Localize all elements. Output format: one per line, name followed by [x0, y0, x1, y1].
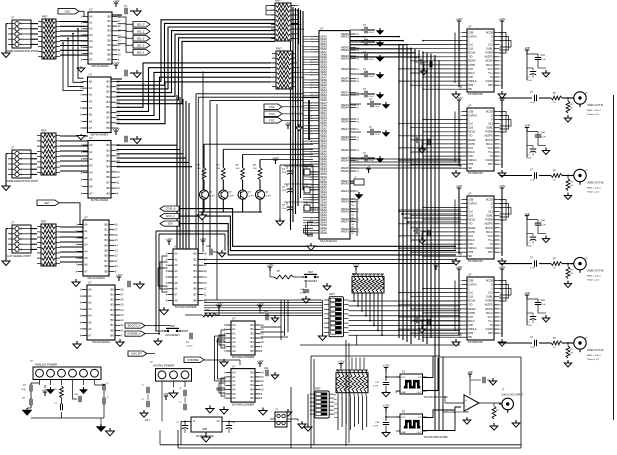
svg-text:VID_1: VID_1: [137, 30, 145, 34]
svg-text:CGND: CGND: [485, 328, 493, 331]
svg-text:A0: A0: [89, 143, 93, 147]
svg-text:ALM RESET: ALM RESET: [165, 333, 180, 337]
svg-text:SE?: SE?: [44, 201, 50, 205]
svg-text:FNT: FNT: [468, 68, 473, 71]
svg-text:FNC: FNC: [468, 155, 473, 158]
svg-text:CLIP?: CLIP?: [248, 196, 255, 198]
svg-text:1?uF: 1?uF: [530, 268, 535, 270]
svg-text:76ohm = Q.2: 76ohm = Q.2: [587, 359, 600, 361]
svg-text:OUT: OUT: [417, 392, 422, 394]
svg-text:BCLC: BCLC: [486, 312, 493, 315]
svg-text:BCLK: BCLK: [468, 151, 475, 154]
svg-text:A7: A7: [88, 333, 92, 337]
svg-text:AUX SERIAL PORT: AUX SERIAL PORT: [7, 254, 31, 258]
svg-text:A0: A0: [232, 323, 236, 327]
svg-text:SN74LV4040A: SN74LV4040A: [87, 276, 105, 280]
svg-text:TA: TA: [490, 155, 493, 158]
svg-text:SDNLA: SDNLA: [468, 80, 477, 83]
svg-text:B7: B7: [108, 48, 112, 52]
svg-text:1?uF: 1?uF: [530, 347, 535, 349]
svg-text:SW?: SW?: [329, 292, 335, 296]
svg-text:U?: U?: [89, 73, 93, 77]
svg-text:C41: C41: [264, 311, 269, 313]
svg-text:NC: NC: [352, 221, 356, 223]
svg-text:A4: A4: [89, 171, 93, 175]
svg-text:−: −: [465, 404, 467, 408]
svg-text:76ohm = Q.2: 76ohm = Q.2: [587, 114, 600, 116]
svg-text:SN74LV4040A: SN74LV4040A: [91, 64, 109, 68]
svg-text:STROBE: STROBE: [187, 358, 198, 362]
svg-text:B1: B1: [194, 257, 198, 261]
svg-text:FNTB: FNTB: [468, 143, 475, 146]
svg-text:FNC: FNC: [468, 324, 473, 327]
svg-text:U?: U?: [174, 245, 178, 249]
svg-text:B0: B0: [194, 251, 198, 255]
svg-text:B4: B4: [111, 308, 115, 312]
svg-text:FSC: FSC: [269, 119, 274, 123]
svg-text:A7: A7: [84, 269, 88, 273]
svg-text:ALEPO: ALEPO: [484, 223, 492, 226]
svg-text:B1: B1: [108, 19, 112, 23]
svg-text:GND: GND: [401, 432, 406, 434]
svg-text:CLB: CLB: [468, 48, 473, 51]
svg-text:B9: B9: [105, 269, 109, 273]
svg-text:9: 9: [20, 249, 22, 252]
svg-text:U?: U?: [468, 273, 472, 277]
svg-text:A2: A2: [89, 157, 93, 161]
svg-text:FNT: FNT: [468, 147, 473, 150]
svg-text:EXI: EXI: [168, 222, 173, 226]
svg-text:A1: A1: [89, 86, 93, 90]
svg-text:CLB: CLB: [468, 127, 473, 130]
svg-text:A0: A0: [84, 222, 88, 226]
svg-text:U?: U?: [89, 8, 93, 12]
svg-text:BCLK: BCLK: [468, 72, 475, 75]
svg-text:0.1uF: 0.1uF: [373, 386, 379, 388]
svg-text:B0: B0: [107, 79, 111, 83]
svg-text:SDNLA: SDNLA: [468, 159, 477, 162]
svg-text:B2: B2: [111, 298, 115, 302]
svg-text:FNTB: FNTB: [468, 64, 475, 67]
svg-text:FSC: FSC: [269, 112, 274, 116]
svg-text:FBT: FBT: [488, 251, 493, 254]
svg-text:A5: A5: [89, 113, 93, 117]
svg-text:3BH2 = 12V+2: 3BH2 = 12V+2: [587, 188, 601, 190]
svg-text:B5: B5: [111, 313, 115, 317]
svg-text:NB: NB: [468, 336, 472, 339]
svg-text:76ohm = Q.2: 76ohm = Q.2: [587, 192, 600, 194]
svg-text:COPYC: COPYC: [468, 35, 477, 38]
svg-text:33uF: 33uF: [282, 190, 287, 192]
svg-text:9: 9: [20, 44, 22, 47]
svg-text:BCLK: BCLK: [468, 320, 475, 323]
svg-text:DIGITAL POWER: DIGITAL POWER: [153, 364, 174, 368]
svg-text:PORM: PORM: [485, 300, 493, 303]
svg-text:10K: 10K: [197, 168, 201, 170]
svg-text:10M CLOCK INPUT: 10M CLOCK INPUT: [501, 394, 523, 397]
svg-text:U?: U?: [84, 216, 88, 220]
svg-text:NB: NB: [468, 167, 472, 170]
svg-text:3BH2 = 12V+2: 3BH2 = 12V+2: [587, 355, 601, 357]
svg-text:OL3: OL3: [488, 123, 493, 126]
svg-text:OSC: OSC: [65, 10, 71, 14]
svg-text:SUBL: SUBL: [486, 296, 493, 299]
svg-text:RN?: RN?: [276, 47, 282, 51]
svg-text:NB: NB: [468, 88, 472, 91]
svg-text:3: 3: [20, 28, 22, 31]
svg-text:A4: A4: [84, 249, 88, 253]
svg-text:3BH2 = 12V+2: 3BH2 = 12V+2: [587, 276, 601, 278]
svg-text:0.1uF: 0.1uF: [541, 304, 547, 306]
svg-text:BCHO: BCHO: [486, 60, 493, 63]
svg-text:33uF: 33uF: [282, 172, 287, 174]
svg-text:B5: B5: [107, 105, 111, 109]
svg-text:10uF: 10uF: [527, 246, 532, 248]
svg-text:BGND: BGND: [468, 60, 475, 63]
svg-text:NCLB: NCLB: [468, 52, 475, 55]
svg-text:A6: A6: [89, 119, 93, 123]
svg-text:D/L?: D/L?: [145, 419, 151, 422]
svg-text:RN?: RN?: [42, 15, 48, 19]
svg-text:VCC: VCC: [401, 377, 406, 379]
svg-text:B8: B8: [107, 186, 111, 190]
svg-text:B7: B7: [111, 323, 115, 327]
svg-text:SUBL: SUBL: [486, 127, 493, 130]
svg-text:NC: NC: [352, 224, 356, 226]
svg-text:BCHO: BCHO: [486, 227, 493, 230]
svg-text:B7: B7: [107, 116, 111, 120]
svg-text:NC: NC: [352, 233, 356, 235]
svg-text:B2: B2: [251, 379, 255, 383]
svg-text:B3: B3: [107, 159, 111, 163]
svg-text:AMPLIFIER/CRYSTDBY: AMPLIFIER/CRYSTDBY: [443, 411, 470, 414]
svg-text:OL3: OL3: [488, 44, 493, 47]
svg-text:A4: A4: [232, 388, 236, 392]
svg-text:LTVR_A: LTVR_A: [166, 207, 176, 211]
svg-text:J?: J?: [11, 146, 14, 150]
svg-text:VREF6: VREF6: [341, 68, 350, 71]
svg-text:ALEPO: ALEPO: [484, 56, 492, 59]
svg-text:TA: TA: [490, 324, 493, 327]
svg-text:CLIP?: CLIP?: [228, 196, 235, 198]
svg-text:B6: B6: [105, 254, 109, 258]
svg-text:YIO: YIO: [468, 56, 472, 59]
svg-text:10uF: 10uF: [527, 80, 532, 82]
svg-text:B5: B5: [251, 392, 255, 396]
svg-text:ALEPO: ALEPO: [484, 304, 492, 307]
svg-text:NC: NC: [352, 211, 356, 213]
svg-text:B1: B1: [111, 293, 115, 297]
svg-text:CGND: CGND: [485, 247, 493, 250]
svg-text:10K: 10K: [216, 168, 220, 170]
svg-text:76ohm = Q.2: 76ohm = Q.2: [587, 280, 600, 282]
svg-text:BOOST_A: BOOST_A: [128, 324, 141, 328]
svg-text:BCHO: BCHO: [486, 139, 493, 142]
svg-text:FNTB: FNTB: [468, 231, 475, 234]
svg-text:B9: B9: [111, 333, 115, 337]
svg-text:NCLB: NCLB: [468, 131, 475, 134]
svg-text:DEBUG/MONITOR PORT: DEBUG/MONITOR PORT: [7, 179, 38, 183]
svg-text:B4: B4: [194, 275, 198, 279]
svg-text:7: 7: [20, 38, 22, 41]
svg-text:0.1uF: 0.1uF: [541, 225, 547, 227]
svg-text:NC: NC: [352, 218, 356, 220]
svg-text:9: 9: [20, 174, 22, 177]
svg-text:B7: B7: [194, 293, 198, 297]
svg-text:VREF5: VREF5: [341, 210, 350, 213]
svg-text:VCC: VCC: [401, 417, 406, 419]
svg-text:A2: A2: [89, 93, 93, 97]
svg-text:CSB: CSB: [468, 110, 473, 113]
svg-text:PORM: PORM: [485, 219, 493, 222]
svg-text:NCCB: NCCB: [486, 279, 493, 282]
svg-text:ALEPO: ALEPO: [484, 135, 492, 138]
svg-text:CLC: CLC: [468, 123, 473, 126]
svg-text:VREF3: VREF3: [341, 49, 350, 52]
svg-text:SUBL: SUBL: [486, 48, 493, 51]
svg-text:RN?: RN?: [41, 129, 47, 133]
svg-text:0.1uF: 0.1uF: [369, 76, 375, 78]
svg-text:B6: B6: [107, 175, 111, 179]
svg-text:B4: B4: [105, 243, 109, 247]
svg-text:B6: B6: [194, 287, 198, 291]
svg-text:10K: 10K: [253, 168, 257, 170]
svg-text:NC: NC: [352, 227, 356, 229]
svg-text:A0: A0: [89, 14, 93, 18]
svg-text:VCC: VCC: [488, 316, 493, 319]
svg-text:TS+: TS+: [488, 320, 493, 323]
svg-text:A3: A3: [89, 33, 93, 37]
svg-text:B1: B1: [107, 85, 111, 89]
svg-text:VIDEO OUT #4: VIDEO OUT #4: [587, 349, 604, 352]
svg-text:B1: B1: [105, 228, 109, 232]
svg-text:A2: A2: [84, 236, 88, 240]
svg-text:NC: NC: [352, 208, 356, 210]
svg-text:SW?: SW?: [308, 271, 314, 274]
svg-text:B5: B5: [107, 170, 111, 174]
svg-text:10uF: 10uF: [527, 158, 532, 160]
svg-text:VCC: VCC: [488, 147, 493, 150]
svg-text:BT478KPJ50: BT478KPJ50: [468, 341, 483, 344]
svg-text:B3: B3: [251, 383, 255, 387]
svg-text:A6: A6: [232, 396, 236, 400]
svg-text:RN?: RN?: [275, 0, 281, 3]
svg-text:B0: B0: [108, 14, 112, 18]
svg-text:B9: B9: [107, 191, 111, 195]
svg-text:TS+: TS+: [488, 151, 493, 154]
svg-text:VREF2: VREF2: [341, 149, 350, 152]
svg-text:U?: U?: [320, 26, 324, 30]
svg-text:A7: A7: [89, 57, 93, 61]
svg-text:SW?: SW?: [315, 387, 321, 391]
svg-text:VREF1: VREF1: [341, 190, 350, 193]
svg-text:R40: R40: [205, 309, 210, 312]
svg-text:B1: B1: [107, 148, 111, 152]
svg-text:5: 5: [20, 238, 22, 241]
svg-text:3BH2 = 12V+2: 3BH2 = 12V+2: [587, 110, 601, 112]
svg-text:BCLC: BCLC: [486, 64, 493, 67]
svg-text:CLB: CLB: [468, 296, 473, 299]
svg-text:NCLB: NCLB: [468, 219, 475, 222]
svg-text:A0: A0: [232, 371, 236, 375]
svg-text:C42: C42: [264, 368, 269, 370]
svg-text:B4: B4: [107, 100, 111, 104]
svg-text:0.1uF: 0.1uF: [369, 32, 375, 34]
svg-text:U?: U?: [89, 136, 93, 140]
svg-text:VCC: VCC: [488, 235, 493, 238]
svg-text:VREF0: VREF0: [341, 182, 350, 185]
svg-text:J?: J?: [11, 221, 14, 225]
svg-text:U?: U?: [232, 364, 236, 368]
svg-text:B3: B3: [111, 303, 115, 307]
svg-text:C44: C44: [541, 300, 546, 302]
svg-text:B9: B9: [107, 126, 111, 130]
svg-text:A1: A1: [84, 229, 88, 233]
svg-text:B1: B1: [251, 327, 255, 331]
svg-text:B2: B2: [105, 233, 109, 237]
svg-text:OAC_BT: OAC_BT: [131, 352, 142, 356]
svg-text:A2: A2: [174, 263, 178, 267]
svg-text:YIO: YIO: [468, 135, 472, 138]
svg-text:B6: B6: [107, 110, 111, 114]
svg-text:B4: B4: [108, 34, 112, 38]
svg-text:A3: A3: [89, 164, 93, 168]
svg-text:A2: A2: [232, 332, 236, 336]
svg-text:FSC: FSC: [269, 105, 274, 109]
svg-text:B0: B0: [105, 222, 109, 226]
svg-text:B8: B8: [108, 53, 112, 57]
svg-text:A5: A5: [232, 345, 236, 349]
svg-text:SN74AHC259DBR: SN74AHC259DBR: [232, 402, 255, 406]
svg-text:A6: A6: [89, 51, 93, 55]
svg-text:BCHO: BCHO: [486, 308, 493, 311]
svg-text:NCCB: NCCB: [486, 31, 493, 34]
svg-text:FNC: FNC: [468, 76, 473, 79]
svg-text:A6: A6: [232, 349, 236, 353]
svg-text:1?uF: 1?uF: [530, 102, 535, 104]
svg-text:1: 1: [20, 23, 22, 26]
svg-text:B4: B4: [107, 165, 111, 169]
svg-text:B8: B8: [194, 298, 198, 302]
svg-text:A2: A2: [88, 301, 92, 305]
svg-text:A1: A1: [88, 294, 92, 298]
svg-text:5: 5: [20, 163, 22, 166]
svg-text:C44: C44: [541, 55, 546, 57]
svg-text:B2: B2: [194, 263, 198, 267]
svg-text:B2: B2: [108, 24, 112, 28]
svg-text:BCLC: BCLC: [486, 231, 493, 234]
svg-text:B0: B0: [107, 143, 111, 147]
svg-text:A6: A6: [174, 287, 178, 291]
svg-text:B6: B6: [251, 349, 255, 353]
svg-text:0.1uF: 0.1uF: [373, 426, 379, 428]
svg-text:RN?: RN?: [41, 220, 47, 224]
svg-text:C44: C44: [541, 221, 546, 223]
svg-text:B5: B5: [105, 249, 109, 253]
svg-text:NTB: NTB: [468, 163, 473, 166]
svg-text:CLIP?: CLIP?: [265, 196, 272, 198]
svg-text:TS+: TS+: [488, 239, 493, 242]
svg-text:NC: NC: [352, 205, 356, 207]
svg-text:NTB: NTB: [468, 84, 473, 87]
svg-text:B7: B7: [107, 181, 111, 185]
svg-text:A5: A5: [174, 281, 178, 285]
svg-text:CGND: CGND: [485, 159, 493, 162]
svg-text:A4: A4: [174, 275, 178, 279]
svg-text:GND: GND: [401, 392, 406, 394]
svg-text:A8: A8: [174, 298, 178, 302]
svg-text:1?uF: 1?uF: [530, 180, 535, 182]
svg-text:VREF7: VREF7: [341, 128, 350, 131]
svg-text:OUT: OUT: [417, 432, 422, 434]
svg-text:10K: 10K: [236, 168, 240, 170]
svg-text:C40: C40: [206, 246, 211, 248]
svg-text:BT478KPJ50: BT478KPJ50: [468, 260, 483, 263]
svg-text:J?: J?: [11, 16, 14, 20]
svg-text:0.1uF: 0.1uF: [375, 134, 381, 136]
svg-text:A3: A3: [232, 383, 236, 387]
svg-text:A0: A0: [174, 251, 178, 255]
svg-text:A2: A2: [232, 379, 236, 383]
svg-text:A1: A1: [232, 375, 236, 379]
svg-text:VCC: VCC: [488, 68, 493, 71]
svg-text:SDNLA: SDNLA: [468, 328, 477, 331]
svg-text:B9: B9: [108, 57, 112, 61]
svg-text:VREF1: VREF1: [341, 138, 350, 141]
svg-text:A3: A3: [89, 99, 93, 103]
svg-text:DOWSE_A: DOWSE_A: [127, 332, 141, 336]
svg-text:CGND: CGND: [485, 80, 493, 83]
svg-text:VIDEO OUT #3: VIDEO OUT #3: [587, 270, 604, 273]
svg-text:FNC: FNC: [468, 243, 473, 246]
svg-text:U?: U?: [468, 104, 472, 108]
svg-text:10uF: 10uF: [21, 389, 26, 391]
svg-text:FBT: FBT: [488, 84, 493, 87]
svg-text:FNT: FNT: [468, 235, 473, 238]
svg-text:VREF1: VREF1: [341, 35, 350, 38]
svg-text:CSB: CSB: [468, 279, 473, 282]
svg-text:COPYC: COPYC: [468, 283, 477, 286]
svg-text:EN: EN: [418, 417, 421, 419]
svg-text:VREF6: VREF6: [341, 120, 350, 123]
svg-text:VREF1: VREF1: [341, 230, 350, 233]
svg-text:CLC: CLC: [468, 211, 473, 214]
svg-text:NC: NC: [352, 199, 356, 201]
svg-text:CLC: CLC: [468, 292, 473, 295]
svg-text:SM74HC49/HCL5YBW: SM74HC49/HCL5YBW: [424, 437, 448, 439]
svg-text:B3: B3: [108, 29, 112, 33]
svg-text:1: 1: [20, 228, 22, 231]
svg-text:VID_3: VID_3: [137, 44, 145, 48]
svg-text:B6: B6: [111, 318, 115, 322]
svg-text:A1: A1: [89, 150, 93, 154]
svg-text:C44: C44: [541, 133, 546, 135]
svg-text:B8: B8: [105, 264, 109, 268]
svg-text:SN74LV4040A: SN74LV4040A: [90, 133, 108, 137]
svg-text:PORM: PORM: [485, 131, 493, 134]
svg-text:VO: VO: [217, 420, 221, 423]
svg-text:BGND: BGND: [468, 308, 475, 311]
svg-text:OL3: OL3: [488, 292, 493, 295]
svg-text:0.1uF 4): 0.1uF 4): [311, 190, 319, 192]
svg-text:B6: B6: [251, 396, 255, 400]
svg-text:B5: B5: [251, 345, 255, 349]
svg-text:EN: EN: [418, 377, 421, 379]
svg-text:SN74ALVCH5928: SN74ALVCH5928: [175, 305, 197, 309]
svg-text:A3: A3: [84, 243, 88, 247]
svg-text:0.1uF: 0.1uF: [541, 137, 547, 139]
svg-text:B5: B5: [194, 281, 198, 285]
